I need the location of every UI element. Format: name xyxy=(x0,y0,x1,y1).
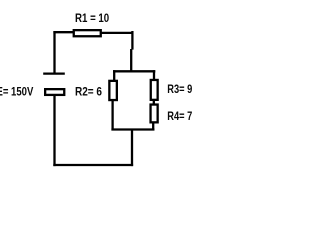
wire: battery top vertical xyxy=(53,31,55,74)
wire: bottom horizontal return xyxy=(53,164,133,166)
resistor R1 xyxy=(74,30,101,36)
voltage source E: top plate xyxy=(43,72,65,74)
resistor R3 xyxy=(151,80,158,100)
wire: R4 bottom stub xyxy=(152,123,154,131)
svg-text:R3= 9: R3= 9 xyxy=(167,82,192,96)
wire: battery bottom vertical xyxy=(53,96,55,167)
wire: right vertical down upper segment xyxy=(131,31,133,50)
svg-text:R2= 6: R2= 6 xyxy=(75,84,102,98)
resistor R4 xyxy=(151,105,158,123)
svg-text:R1 = 10: R1 = 10 xyxy=(75,11,110,25)
wire: top horizontal from battery to R1 xyxy=(53,31,74,33)
wire: stub between R3 and R4 xyxy=(153,101,155,105)
wire: bottom feed vertical xyxy=(131,130,133,167)
wire: R3 top stub xyxy=(153,70,155,79)
wire: bottom bus of parallel section xyxy=(111,128,154,130)
wire: R2 top stub xyxy=(113,70,115,80)
resistor R2 xyxy=(109,81,117,100)
wire: R2 bottom stub xyxy=(111,101,113,131)
voltage source E: bottom plate box xyxy=(45,89,64,95)
wire: R1 right to corner xyxy=(101,32,133,34)
svg-text:E= 150V: E= 150V xyxy=(0,84,33,98)
wire: top bus of parallel section xyxy=(113,70,155,72)
svg-text:R4= 7: R4= 7 xyxy=(167,109,192,123)
wire: right vertical down lower segment xyxy=(130,49,132,72)
